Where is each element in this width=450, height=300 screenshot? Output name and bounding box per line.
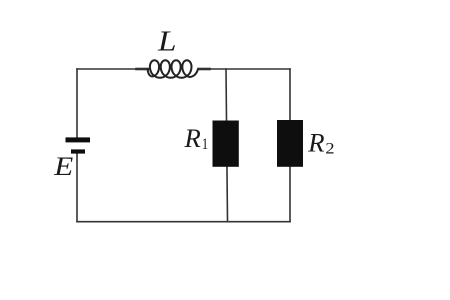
- battery E plate long (top): [66, 137, 91, 142]
- svg-text:E: E: [53, 151, 73, 181]
- wire top left segment: [77, 68, 137, 70]
- resistor R2 body: [277, 120, 303, 167]
- wire left vertical bottom (battery - to bottom-left corner): [76, 153, 78, 221]
- svg-text:R: R: [307, 128, 324, 158]
- wire inductor right lead: [199, 68, 210, 71]
- battery E plate short (bottom): [71, 149, 85, 153]
- wire right vertical (R2 branch): [289, 69, 291, 222]
- resistor R1 body: [213, 121, 239, 167]
- wire R1 branch vertical: [226, 69, 228, 222]
- svg-text:1: 1: [202, 136, 209, 153]
- wire left vertical top (battery + to top-left corner): [76, 69, 78, 138]
- wire top right segment: [209, 68, 290, 70]
- wire bottom: [77, 221, 290, 223]
- svg-text:R: R: [183, 123, 200, 153]
- inductor L coil: [148, 60, 198, 78]
- svg-text:2: 2: [325, 141, 334, 158]
- svg-text:L: L: [157, 27, 177, 58]
- wire inductor left lead: [137, 68, 149, 71]
